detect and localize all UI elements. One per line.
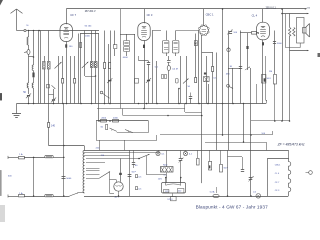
speaker feed line y13.5 — [282, 13, 309, 15]
fuse Si1 — [19, 157, 25, 159]
tuning gang capacitor arrow — [58, 56, 60, 104]
svg-text:125 V: 125 V — [167, 199, 173, 201]
fuse pill F3 — [216, 187, 218, 193]
scan artifact left edge gray streak — [0, 170, 2, 196]
wire x257 vertical — [256, 84, 258, 104]
svg-text:2000: 2000 — [101, 118, 107, 120]
pickup jack — [227, 48, 230, 51]
wire x199 vertical — [198, 31, 200, 104]
resistor R9 — [195, 34, 197, 78]
wire x81 with capacitor — [80, 34, 82, 104]
heater dropper chain box — [268, 159, 291, 197]
resistor R4 — [74, 56, 76, 79]
ground bus wire — [17, 103, 267, 105]
svg-text:2000: 2000 — [113, 118, 119, 120]
svg-text:CF 3: CF 3 — [147, 13, 153, 17]
trimmer capacitor T2 — [53, 89, 55, 99]
wire x289.5 down to heater bus — [289, 51, 291, 122]
line y68 stub — [228, 68, 240, 70]
anode cap feed wire x120.5 — [120, 159, 122, 182]
resistor R3 — [62, 79, 64, 84]
wire x227.5 vertical — [227, 150, 229, 196]
coil L2 on branch x33.5 — [33, 31, 35, 66]
cathode marks CL4 — [262, 39, 264, 103]
heater feed bus y121 — [251, 120, 290, 122]
wire x282 from anode bus — [282, 9, 284, 121]
volume potentiometer arrow — [186, 56, 188, 104]
svg-text:140: 140 — [51, 124, 56, 127]
wire tap to rectifier — [110, 179, 117, 181]
svg-text:1 A: 1 A — [19, 192, 23, 195]
wire y95 link — [49, 94, 54, 96]
capacitor with arrow on x251 — [249, 177, 253, 179]
spare socket lower — [136, 187, 138, 190]
tube CF3 — [144, 9, 146, 23]
mains line 2 — [8, 196, 18, 198]
mains choke Dr2 — [45, 194, 48, 197]
voltage selector plug — [162, 183, 186, 194]
wire x202 into selector — [201, 182, 203, 184]
antenna plug connector — [24, 29, 26, 31]
wire y76 link — [85, 76, 96, 78]
mains on-off switch lever — [70, 193, 79, 196]
cathode bypass electrolytic — [262, 75, 266, 84]
tube CF7 — [66, 9, 68, 24]
resistor pair small boxes — [162, 75, 164, 79]
wire x135 vertical — [134, 34, 136, 104]
box bottom — [96, 140, 157, 142]
series resistor Ra — [96, 120, 149, 122]
svg-text:6000: 6000 — [123, 57, 129, 59]
spare socket upper — [136, 175, 138, 178]
svg-text:50 F: 50 F — [267, 78, 272, 80]
svg-text:ZF = 485/473 kHz: ZF = 485/473 kHz — [277, 143, 305, 147]
coupling capacitor box — [176, 79, 179, 84]
speaker driver and cone — [303, 28, 307, 34]
fuse lamp F1 — [158, 150, 160, 151]
IF coil L8 crosshatch — [95, 31, 97, 62]
box right edge — [148, 121, 150, 133]
tube CL4 — [262, 9, 264, 23]
sub bus y108.5 — [97, 108, 185, 110]
transformer tap y158.5 — [86, 158, 140, 160]
grid line y30.5 right section — [152, 30, 161, 32]
bus y142 — [205, 142, 266, 144]
heater bottom bus y196 — [84, 196, 288, 198]
svg-text:10%: 10% — [158, 179, 162, 181]
tone capacitor with arrow — [228, 31, 230, 151]
capacitor C8 plates — [148, 61, 150, 63]
dropper resistor box — [106, 125, 108, 130]
oscillator coil L6 crosshatch — [48, 31, 50, 62]
svg-text:Netz: Netz — [163, 164, 168, 167]
wire x48.5 below bus to power rail — [48, 104, 50, 123]
line capacitor on x63.8 — [63, 146, 65, 197]
lever wire down — [109, 172, 111, 194]
output transformer secondary — [293, 28, 295, 37]
rectifier cathode to bus — [118, 191, 120, 196]
scan artifact top-left corner — [0, 0, 3, 6]
svg-text:0,3 A: 0,3 A — [210, 191, 215, 194]
resistor R2 — [48, 123, 50, 128]
svg-text:5000: 5000 — [66, 178, 72, 180]
wire x208 vertical — [208, 84, 210, 104]
wire choke to selector — [166, 173, 168, 184]
bus end corner up — [266, 100, 268, 104]
resistor R10 — [212, 67, 214, 72]
bus y115.5 — [123, 115, 202, 117]
wire y174.2 — [146, 174, 166, 176]
pot wiper wire — [178, 88, 180, 90]
transformer tap y162 — [86, 162, 105, 164]
tuning gang arrow 2 — [84, 31, 86, 77]
mains choke hatched box — [166, 150, 168, 167]
scan artifact right edge mark — [318, 53, 320, 57]
wire x180 vertical — [180, 56, 182, 104]
scan artifact left edge dark mark — [0, 93, 2, 101]
svg-text:CBC1: CBC1 — [275, 165, 281, 167]
fuse Si2 — [19, 195, 25, 197]
chassis wire x63.5 below bus — [63, 104, 65, 146]
svg-text:2000: 2000 — [85, 35, 91, 37]
trimmer capacitor T4 — [147, 80, 150, 81]
capacitor C12 plates — [190, 93, 192, 97]
wire x233 vertical — [232, 68, 234, 104]
HT rail y150.3 — [84, 150, 289, 152]
speaker housing — [297, 18, 305, 44]
resistor box R20 — [197, 150, 199, 158]
coil L4 lower on x33.5 — [32, 83, 33, 88]
mains choke Dr1 — [45, 155, 48, 158]
svg-text:CF 7: CF 7 — [70, 13, 76, 17]
wire y132.5 — [117, 132, 149, 134]
tube CBC1 — [203, 9, 205, 25]
wire x152 vertical — [152, 31, 154, 104]
wire x157 vertical — [156, 61, 158, 104]
svg-text:Blaupunkt - 4 GW 67 - Jahr 193: Blaupunkt - 4 GW 67 - Jahr 1937 — [196, 204, 269, 209]
wire x243.5 below bus — [243, 104, 245, 143]
wire x124 to power rail — [124, 140, 126, 150]
band switch S1c — [107, 96, 110, 98]
band switch S1a — [47, 85, 50, 88]
wire x206 vertical — [206, 56, 208, 104]
screen resistor R13 — [274, 31, 276, 75]
dial lamp — [256, 194, 261, 199]
wire x99 to switch box — [98, 34, 100, 122]
antenna coil L1 — [28, 31, 30, 38]
wire x217 vertical to power — [216, 53, 218, 151]
svg-text:1 A: 1 A — [19, 153, 23, 156]
wire x70.5 vertical — [70, 56, 72, 104]
IF transformer secondary can — [124, 47, 130, 52]
wire switch to transformer — [79, 192, 85, 194]
series resistor Rb — [113, 120, 119, 123]
output transformer primary — [289, 14, 291, 28]
filter cap x133.5 — [133, 150, 135, 162]
svg-text:50 F: 50 F — [224, 168, 229, 170]
svg-text:CBC 1: CBC 1 — [206, 13, 214, 17]
wire x41 vertical — [40, 31, 42, 104]
rectifier tube CY2 — [114, 182, 123, 191]
detector coil hatches — [168, 56, 170, 60]
voltage tap bundle — [86, 168, 100, 170]
trimmer capacitor T3 — [108, 80, 111, 81]
grid resistor R12 — [240, 32, 252, 34]
switch S2 on bus — [227, 84, 230, 87]
resistor R5 — [104, 31, 106, 63]
transformer tap y155.5 — [84, 155, 130, 157]
svg-text:2M: 2M — [269, 71, 272, 73]
wire link y57 — [29, 56, 34, 58]
HT rail y152.6 — [84, 152, 160, 154]
grid return y52.5 — [202, 52, 213, 54]
antenna — [11, 9, 17, 13]
wire x222.5 from anode bus — [222, 8, 224, 10]
mains switch S4 — [139, 154, 150, 158]
screen bus y33.5 — [80, 33, 99, 35]
wire antenna to plug — [17, 30, 24, 32]
AF coupling block hatched — [204, 77, 210, 82]
anode supply bus y9 — [66, 8, 306, 10]
trimmer capacitor on L1 branch — [27, 50, 30, 55]
voice coil wiring — [286, 14, 301, 48]
reservoir cap wire x129.5 — [129, 150, 131, 196]
wire x241 with capacitor — [240, 31, 242, 104]
padder trimmer capacitor — [27, 95, 30, 96]
coil L3 lower on x28.5 — [27, 83, 28, 88]
capacitor with arrow C20 — [180, 150, 182, 158]
selector sub box below — [172, 194, 174, 198]
box left edge — [96, 121, 98, 140]
line filter cross wire x33.6 — [33, 157, 35, 196]
svg-text:205 V 0,1: 205 V 0,1 — [266, 7, 277, 10]
screen line y34 — [120, 34, 135, 36]
mains autotransformer winding — [84, 146, 86, 151]
wire x39 vertical — [38, 31, 40, 104]
scan artifact bottom-left smudge — [0, 205, 5, 222]
tap selector lever — [100, 172, 111, 179]
svg-text:287 204 V: 287 204 V — [85, 10, 96, 13]
IF coil L7 crosshatch — [91, 31, 93, 62]
wire x79 vertical — [78, 34, 80, 104]
wire corner y157 — [228, 156, 243, 158]
wire x108 vertical — [108, 44, 110, 104]
diode load resistor ellipse — [168, 62, 170, 66]
switch lever S3a — [110, 128, 117, 131]
resistor R6 — [110, 31, 112, 63]
connector circle right — [309, 171, 313, 175]
fuse lamp F2 — [185, 150, 187, 151]
field coil return y50.5 — [289, 36, 291, 51]
grid wire into CBC1 — [176, 30, 199, 32]
wire y145.5 to mains transformer — [49, 145, 85, 147]
svg-text:CL 4: CL 4 — [252, 13, 258, 17]
IF can 2 primary — [166, 31, 168, 41]
cathode wire CBC1 long vertical — [201, 35, 203, 183]
wire x121 vertical — [120, 9, 122, 109]
wire x99.5 to power rail — [99, 140, 101, 150]
band switch S1b contacts — [100, 91, 103, 94]
cathode resistor marks CF3 — [144, 40, 146, 108]
electrolytic C21 — [209, 150, 211, 161]
mains line 1 — [8, 157, 18, 159]
svg-text:56 164: 56 164 — [85, 26, 92, 28]
wire x63 vertical with resistor — [62, 56, 64, 79]
oscillator trim coil box — [195, 41, 198, 46]
svg-text:0,4 M: 0,4 M — [172, 68, 178, 70]
wire x265.5 corner — [265, 56, 267, 100]
oscillator coil L5 crosshatch — [44, 56, 46, 62]
IF can 2 secondary — [175, 31, 177, 41]
electrolytic C22 — [220, 150, 222, 164]
AGC resistor box — [135, 79, 139, 84]
svg-text:50 F: 50 F — [132, 172, 137, 174]
node grid line A — [29, 30, 100, 32]
wire x251 long vertical — [250, 68, 252, 196]
screen stopper corner y61 — [138, 56, 140, 61]
coupling capacitor block — [114, 31, 116, 46]
grid stopper arrow x247.5 — [247, 33, 249, 70]
wire x123 corner to y115.5 — [122, 109, 124, 116]
dip wire y112 — [184, 104, 186, 113]
cathode resistor marks CF7 — [66, 41, 68, 103]
capacitor C13 filled — [204, 73, 206, 75]
switch lever S3b — [125, 130, 133, 133]
ground symbol — [12, 113, 21, 115]
bus y135 — [160, 134, 272, 136]
resistor R1 (filled) — [32, 73, 34, 78]
junction dots ground bus — [28, 103, 30, 105]
IF transformer primary can — [126, 34, 128, 41]
